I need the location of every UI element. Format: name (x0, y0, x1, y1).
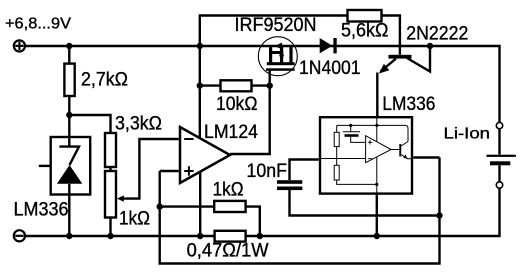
wire 10nF top lead (290, 160, 319, 181)
svg-text:5,6kΩ: 5,6kΩ (341, 21, 389, 42)
internal transistor base bar (399, 144, 401, 157)
wire top loop from V+ column to 5.6k and base (200, 16, 400, 55)
voltage reference U3 LM336 block (right) (320, 117, 413, 193)
channel bar (267, 62, 295, 65)
wire node to 3.3k top (69, 115, 110, 133)
node gate/10k right (267, 82, 273, 88)
node sense/cap/block right (436, 212, 442, 218)
resistor R5 1kOhm feedback (214, 201, 245, 212)
wire 10k right to gate node (252, 84, 270, 86)
wire battery bottom lead (498, 165, 500, 182)
wire 10nF bottom lead (290, 190, 440, 216)
svg-text:10kΩ: 10kΩ (216, 94, 258, 115)
terminal + (supply positive) (14, 40, 25, 51)
wire LM336 block bottom to rail (376, 195, 378, 236)
internal center line (376, 117, 378, 193)
resistor R4 10kOhm (221, 80, 252, 91)
node 2.7k/3.3k/LM336 (66, 112, 72, 118)
internal opamp output (391, 149, 399, 151)
internal cap leads (351, 125, 366, 142)
wire op-amp V+ column (199, 46, 201, 138)
svg-text:+6,8...9V: +6,8...9V (5, 15, 72, 32)
node 10k left (197, 82, 203, 88)
emitter line (381, 59, 397, 72)
potentiometer wiper arrow (117, 195, 124, 201)
svg-text:Li-Ion: Li-Ion (444, 126, 491, 143)
resistor R6 0,47Ohm/1W shunt (215, 231, 246, 242)
potentiometer R3 1kOhm (105, 171, 116, 218)
base bar (389, 55, 412, 59)
svg-text:LM336: LM336 (382, 94, 435, 115)
wire LM336 block right stub (413, 156, 439, 158)
internal left stub / minus input line (320, 158, 366, 160)
mosfet contact bars (269, 45, 272, 63)
wire 1k pot bottom to rail (109, 218, 111, 237)
wire op-amp V- column (199, 172, 201, 236)
wire plus-input sense column down and bottom run (160, 158, 440, 264)
diode D1 1N4001 (320, 38, 337, 53)
svg-text:1N4001: 1N4001 (299, 58, 361, 79)
svg-text:2N2222: 2N2222 (406, 24, 468, 45)
svg-text:1kΩ: 1kΩ (119, 208, 150, 229)
svg-text:3,3kΩ: 3,3kΩ (115, 113, 162, 134)
svg-text:10nF: 10nF (247, 161, 288, 182)
wire pot wiper to op-amp minus input (122, 139, 179, 199)
svg-text:LM336: LM336 (14, 199, 69, 220)
resistor R7 5,6kOhm (348, 10, 382, 22)
internal resistor lower (334, 165, 339, 180)
gate bar (266, 68, 295, 71)
wire main top rail (26, 46, 500, 122)
node LM336 block rail (374, 233, 380, 239)
svg-text:IRF9520N: IRF9520N (235, 15, 317, 36)
node 1k right rail (257, 233, 263, 239)
body arrow (279, 55, 284, 61)
node supply/V+ column (197, 43, 203, 49)
internal transistor emitter (400, 154, 413, 159)
svg-text:LM124: LM124 (204, 122, 258, 143)
wire 2.7k column top (68, 46, 70, 64)
internal top line (337, 125, 408, 141)
wire 2N2222 emitter column to LM336 block (376, 73, 378, 117)
resistor R2 3,3kOhm (105, 133, 116, 167)
wire 2.7k bottom to node (68, 96, 70, 115)
emitter arrow (379, 64, 390, 74)
wire bottom rail (26, 188, 500, 236)
node 1k feedback left (157, 203, 163, 209)
svg-text:1kΩ: 1kΩ (213, 180, 244, 201)
wire 3.3k to 1k pot (109, 167, 111, 171)
internal cap bottom plate (345, 134, 359, 137)
wire battery top lead (498, 129, 500, 155)
resistor R1 2,7kOhm (64, 64, 74, 96)
capacitor C1 10nF (277, 180, 302, 190)
node V- rail (197, 233, 203, 239)
op-amp U1 LM124 (180, 127, 230, 183)
wire LM336 bottom to rail (68, 195, 70, 237)
internal junction dots (349, 124, 352, 127)
transistor Q1 IRF9520N p-MOSFET (258, 37, 297, 76)
wire 2N2222 collector (407, 46, 430, 72)
wire 1k feedback right (247, 207, 260, 236)
battery B1 Li-Ion (487, 122, 516, 188)
wire node down to LM336 box (68, 115, 70, 136)
svg-text:0,47Ω/1W: 0,47Ω/1W (187, 241, 269, 262)
wire 1k feedback left (160, 205, 214, 207)
terminal - (supply negative) (14, 230, 25, 241)
node collector/rail (427, 43, 433, 49)
transistor Q2 2N2222 (379, 55, 412, 74)
internal resistor top lead (337, 125, 377, 184)
internal resistor upper (334, 132, 339, 146)
wire gate node down to op-amp output (230, 86, 270, 154)
wire op-amp plus input (160, 170, 179, 172)
wire 10k left (200, 84, 221, 86)
svg-text:2,7kΩ: 2,7kΩ (81, 69, 128, 90)
node LM336 left bottom rail (66, 233, 72, 239)
internal transistor collector (400, 142, 408, 147)
voltage reference U2 LM336 (left, zener symbol in box) (39, 137, 90, 195)
crossbar (269, 51, 283, 54)
internal opamp triangle (366, 136, 391, 163)
node pot bottom rail (107, 233, 113, 239)
source arrow on rail (275, 43, 282, 50)
node supply/2.7k (66, 43, 72, 49)
wire gate lead (269, 70, 271, 86)
internal cap top plate (343, 131, 360, 133)
